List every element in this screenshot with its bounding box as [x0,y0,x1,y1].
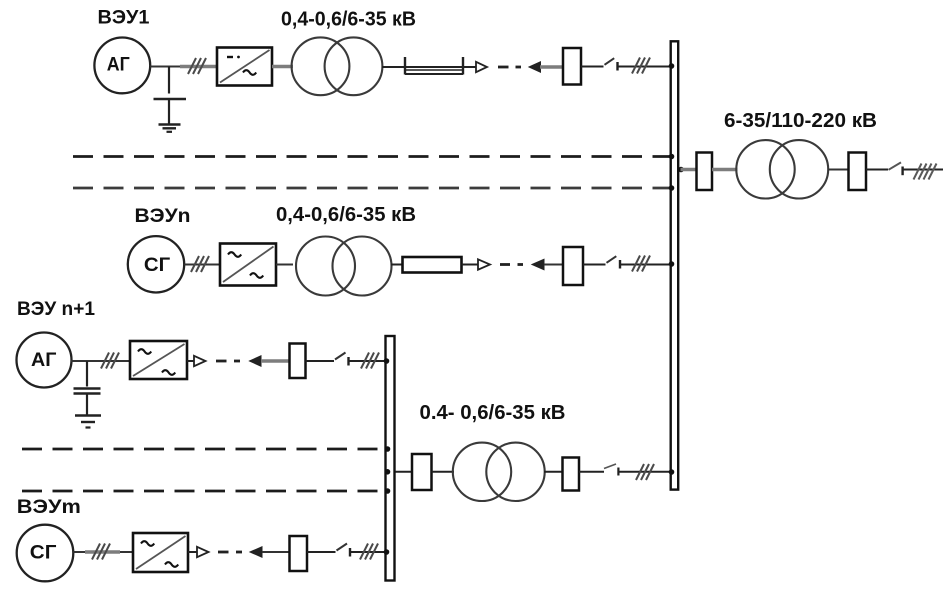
generator АГ (row 1) [94,38,150,94]
wire arrow to breaker (row 4) [262,551,290,553]
wire transformer to cable (row 2) [391,264,404,266]
wire breaker to switch (row 2) [583,264,606,266]
wire converter to arrow (row 4) [188,551,198,553]
node row2-bus [669,261,675,267]
breaker Q2 (row 2) [563,247,583,285]
converter U3 (row 3) [130,341,187,379]
dashed gap (row 4) [218,551,242,554]
node dash4-left-bus [385,488,391,494]
wire arrow to breaker, gray (row 3) [261,359,290,362]
wire converter to arrow (row 3) [187,360,195,362]
wire converter to transformer (row 1) [272,65,293,68]
breaker Q1 (row 1) [563,48,581,85]
bus bar main 6-35 kV [671,41,679,489]
breaker QR1 (grid chain) [697,153,713,191]
disconnect switch (row 1) [605,58,618,70]
wire arrow to breaker, gray (row 1) [540,65,564,68]
svg-text:ВЭУm: ВЭУm [17,497,81,518]
node row1-bus [669,63,675,69]
wire generator to converter (row 1) [150,66,217,68]
dashed gap (row 2) [500,263,523,266]
generator СГ (row 4) [17,525,74,582]
svg-text:0,4-0,6/6-35 кВ: 0,4-0,6/6-35 кВ [281,9,416,31]
arrow right (row 4) [197,547,209,557]
svg-text:0,4-0,6/6-35 кВ: 0,4-0,6/6-35 кВ [276,204,416,226]
wire switch to bus (row 3) [349,360,385,362]
phase marks /// (row 3, generator side) [101,353,119,369]
svg-text:СГ: СГ [144,255,171,276]
converter U4 (row 4) [133,533,188,572]
wire gray segment before converter (row 1) [180,65,217,68]
svg-text:АГ: АГ [107,55,130,76]
wire cable to arrow (row 2) [462,264,480,266]
wire main bus to breaker, gray (grid chain) [681,168,699,171]
wire transformer to breaker (bottom chain) [544,471,564,473]
wire left bus to breaker (bottom chain) [396,471,414,473]
arrow left (row 2) [532,259,544,269]
wire breaker to switch (bottom chain) [579,471,604,473]
breaker QB2 (bottom chain) [563,458,580,491]
disconnect switch (grid chain) [889,162,903,175]
converter U1 (row 1) [217,48,272,86]
wire generator to converter (row 2) [184,264,220,266]
wire switch to main bus (bottom chain) [618,471,672,473]
svg-text:6-35/110-220 кВ: 6-35/110-220 кВ [724,110,877,132]
arrow right (row 3) [194,356,206,366]
svg-text:ВЭУn: ВЭУn [135,206,191,227]
bus bar left 0,4-0,6 kV [386,336,395,581]
transformer T2 0,4-0,6/6-35 (row 2) [296,237,392,296]
phase marks /// to grid (grid chain) [914,164,937,180]
wire breaker to switch (grid chain) [866,169,888,171]
node left-bus feeder [385,469,391,475]
phase marks /// (bottom chain) [636,464,654,480]
breaker Q3 (row 3) [290,344,306,379]
phase marks /// (row 2, bus side) [632,256,650,272]
wire transformer to breaker (grid chain) [828,169,849,171]
breaker Q4 (row 4) [290,536,308,571]
transformer T1 0,4-0,6/6-35 (row 1) [292,37,383,95]
node dash2-bus [669,185,675,191]
wire switch to bus (row 2) [621,264,673,266]
ground (row 1 capacitor) [159,125,181,132]
phase marks /// (row 2, generator side) [191,256,209,272]
phase marks /// (row 1, bus side) [632,58,650,74]
cable line symbol (row 1) [405,57,463,75]
phase marks /// (row 4, generator side) [92,544,110,560]
transformer TR 6-35/110-220 (grid chain) [736,140,828,198]
wire generator to converter (row 4) [73,551,133,553]
ground (row 3 capacitor) [75,416,101,428]
arrow right (row 1) [476,62,487,72]
node row4-bus [384,549,390,555]
disconnect switch (row 4) [337,544,351,557]
dashed continuation line upper-2 [73,187,670,190]
wire gray segment (row 4) [85,550,120,553]
node bottom-chain main bus [669,469,675,475]
capacitor tap wire (row 1) [168,67,170,94]
wire switch to bus (row 1) [618,66,672,68]
wire breaker to switch (row 1) [581,66,604,68]
generator СГ (row 2) [128,236,184,292]
wire breaker to transformer, gray (grid chain) [712,168,738,171]
wire breaker to switch (row 3) [306,360,335,362]
wire transformer to cable (row 1) [382,66,406,68]
arrow left (row 4) [250,547,262,557]
wire breaker to switch (row 4) [307,551,336,553]
phase marks /// (row 4, bus side) [360,544,378,560]
node main-bus grid feeder [678,167,684,173]
disconnect switch (row 2) [607,256,621,268]
node dash1-bus [669,154,675,160]
svg-text:АГ: АГ [31,350,57,371]
wire generator to converter (row 3) [71,360,130,362]
transformer TB 0.4-0,6/6-35 (bottom chain) [453,443,545,501]
svg-text:ВЭУ1: ВЭУ1 [98,8,150,29]
wire switch to grid (grid chain) [903,169,944,171]
arrow right (row 2) [478,259,490,269]
svg-text:ВЭУ n+1: ВЭУ n+1 [17,299,95,320]
dashed gap (row 3) [216,360,240,363]
wire cable to arrow (row 1) [463,66,476,68]
wire switch to bus (row 4) [351,551,386,553]
disconnect switch (bottom chain) [604,464,618,476]
svg-text:СГ: СГ [30,543,57,564]
breaker QR2 (grid chain) [849,153,867,191]
dashed continuation line upper-1 [73,155,670,158]
capacitor C (row 3) [74,389,101,416]
generator АГ (row 3) [17,333,72,388]
node row3-bus [384,358,390,364]
disconnect switch (row 3) [335,353,349,366]
node dash3-left-bus [385,446,391,452]
svg-text:0.4- 0,6/6-35 кВ: 0.4- 0,6/6-35 кВ [420,402,566,424]
wire arrow to breaker (row 2) [544,264,564,266]
arrow left (row 3) [250,356,262,366]
wire breaker to transformer (bottom chain) [432,471,455,473]
arrow left (row 1) [529,62,541,72]
dashed continuation line lower-1 [22,448,388,451]
capacitor C (row 1) [154,99,187,124]
cable line symbol (row 2) [403,257,462,273]
wire converter to transformer (row 2) [276,264,293,266]
converter U2 (row 2) [220,244,276,286]
breaker QB1 (bottom chain) [412,454,432,490]
dashed continuation line lower-2 [22,490,388,493]
capacitor tap wire (row 3) [86,361,88,387]
phase marks /// (row 1, generator side) [188,58,206,74]
dashed gap (row 1) [498,66,521,69]
phase marks /// (row 3, bus side) [361,353,379,369]
